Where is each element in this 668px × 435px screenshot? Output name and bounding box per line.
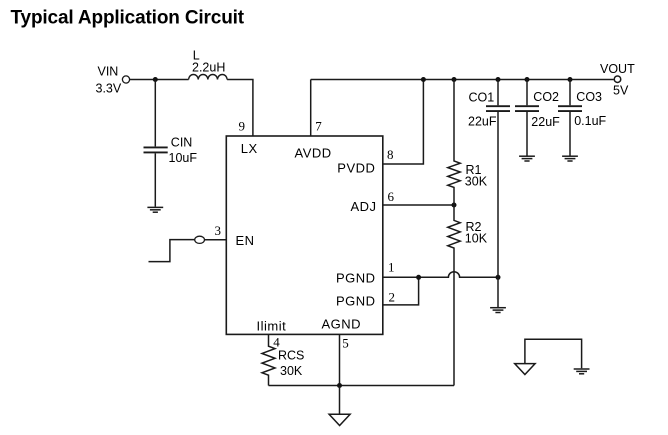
wire PGND pin 1 with hop over R2 xyxy=(383,272,498,278)
svg-text:4: 4 xyxy=(273,334,280,349)
svg-text:2.2uH: 2.2uH xyxy=(192,61,225,75)
svg-text:5: 5 xyxy=(342,335,349,350)
ground CIN xyxy=(147,207,163,212)
wire to power ground xyxy=(497,277,499,307)
node R1 rail junction xyxy=(452,77,457,82)
capacitor CO1 xyxy=(486,80,510,278)
svg-text:CO3: CO3 xyxy=(576,90,602,104)
svg-text:EN: EN xyxy=(236,233,255,248)
svg-text:30K: 30K xyxy=(465,175,488,189)
resistor R2 xyxy=(448,205,460,386)
node PVDD rail junction xyxy=(421,77,426,82)
svg-text:CO2: CO2 xyxy=(533,90,559,104)
wire ADJ pin 6 xyxy=(383,204,454,206)
svg-text:VIN: VIN xyxy=(98,65,119,79)
svg-text:3: 3 xyxy=(215,223,222,238)
capacitor CO3 xyxy=(558,80,582,156)
node CIN tap xyxy=(153,77,158,82)
resistor RCS xyxy=(262,334,275,385)
wire analog ground bus xyxy=(269,385,455,387)
inductor L xyxy=(189,74,228,79)
ground earth legend xyxy=(574,369,590,374)
svg-text:7: 7 xyxy=(315,118,322,133)
wire PVDD pin 8 to rail xyxy=(383,80,424,165)
svg-text:30K: 30K xyxy=(280,364,303,378)
capacitor CO2 xyxy=(515,80,539,156)
terminal EN xyxy=(195,236,205,243)
svg-text:CIN: CIN xyxy=(171,136,193,150)
svg-text:RCS: RCS xyxy=(278,349,304,363)
svg-text:ADJ: ADJ xyxy=(351,199,377,214)
wire to signal ground xyxy=(339,386,341,415)
node CO3 rail junction xyxy=(568,77,573,82)
node CO2 rail junction xyxy=(525,77,530,82)
wire PGND pin 2 xyxy=(383,277,419,305)
svg-text:PVDD: PVDD xyxy=(337,161,375,176)
svg-text:CO1: CO1 xyxy=(469,90,495,104)
svg-text:AVDD: AVDD xyxy=(295,146,332,161)
wire ground equivalence bracket xyxy=(525,339,582,368)
op-amp U1 IC body xyxy=(226,136,382,334)
wire AVDD pin 7 riser xyxy=(310,80,312,137)
svg-text:3.3V: 3.3V xyxy=(96,81,122,95)
svg-text:PGND: PGND xyxy=(336,293,376,308)
node CO1 rail junction xyxy=(496,77,501,82)
svg-text:5V: 5V xyxy=(613,84,629,98)
ground CO3 xyxy=(562,156,578,161)
svg-text:2: 2 xyxy=(389,289,396,304)
wire EN to pin 3 xyxy=(205,239,227,241)
svg-text:VOUT: VOUT xyxy=(600,62,635,76)
capacitor CIN xyxy=(144,80,168,207)
EN drive step waveform xyxy=(149,240,195,262)
svg-text:10K: 10K xyxy=(465,231,488,245)
svg-text:PGND: PGND xyxy=(336,271,376,286)
svg-text:22uF: 22uF xyxy=(468,115,497,129)
wire AGND pin 5 xyxy=(339,334,341,385)
svg-text:0.1uF: 0.1uF xyxy=(574,114,606,128)
node CO1 return junction xyxy=(496,275,501,280)
node PGND junction xyxy=(416,275,421,280)
svg-text:Ilimit: Ilimit xyxy=(257,319,287,334)
wire inductor to LX pin 9 xyxy=(227,80,253,137)
node AGND junction xyxy=(337,383,342,388)
ground signal triangle xyxy=(329,414,350,425)
ground power xyxy=(490,308,506,313)
resistor R1 xyxy=(448,80,460,206)
wire VIN to inductor xyxy=(130,79,189,81)
terminal VIN xyxy=(122,76,129,83)
node ADJ junction xyxy=(452,203,457,208)
svg-text:22uF: 22uF xyxy=(531,115,560,129)
svg-text:6: 6 xyxy=(388,189,395,204)
svg-text:10uF: 10uF xyxy=(169,151,198,165)
svg-text:9: 9 xyxy=(239,118,246,133)
svg-text:8: 8 xyxy=(387,147,394,162)
svg-text:LX: LX xyxy=(241,141,258,156)
svg-text:AGND: AGND xyxy=(322,317,362,332)
terminal VOUT xyxy=(614,76,621,83)
ground signal triangle legend xyxy=(515,364,535,375)
ground CO2 xyxy=(519,156,535,161)
svg-text:Typical Application Circuit: Typical Application Circuit xyxy=(11,8,245,29)
svg-text:1: 1 xyxy=(388,260,395,275)
wire VOUT rail xyxy=(311,79,614,81)
